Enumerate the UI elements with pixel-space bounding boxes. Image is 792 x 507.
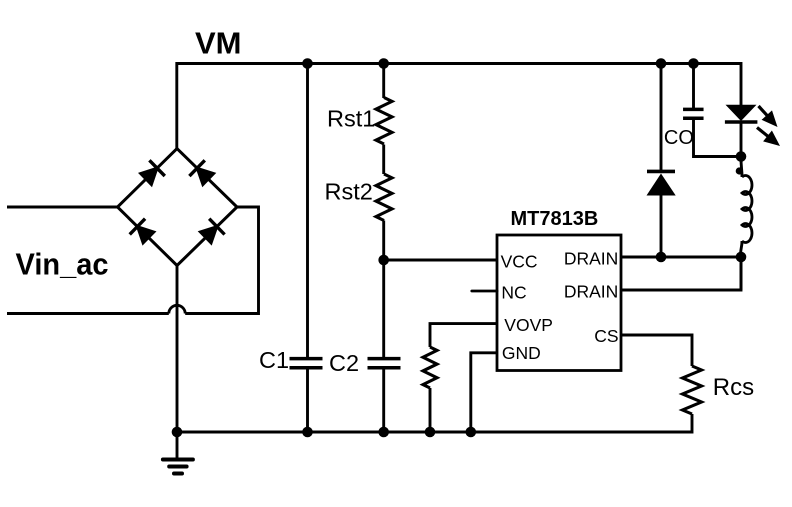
svg-text:CO: CO (664, 127, 694, 149)
svg-text:Rst1: Rst1 (327, 106, 375, 132)
svg-text:Rst2: Rst2 (325, 179, 373, 205)
svg-text:GND: GND (502, 343, 541, 363)
svg-text:VM: VM (195, 26, 242, 61)
svg-text:Rcs: Rcs (713, 374, 754, 401)
svg-text:MT7813B: MT7813B (511, 208, 599, 230)
svg-text:VOVP: VOVP (504, 315, 553, 335)
svg-text:VCC: VCC (501, 251, 538, 271)
svg-text:C2: C2 (329, 350, 359, 376)
svg-text:NC: NC (501, 282, 526, 302)
svg-text:C1: C1 (259, 347, 289, 373)
svg-text:DRAIN: DRAIN (564, 248, 618, 268)
svg-text:Vin_ac: Vin_ac (16, 247, 109, 282)
svg-text:DRAIN: DRAIN (564, 281, 618, 301)
svg-text:CS: CS (594, 326, 618, 346)
